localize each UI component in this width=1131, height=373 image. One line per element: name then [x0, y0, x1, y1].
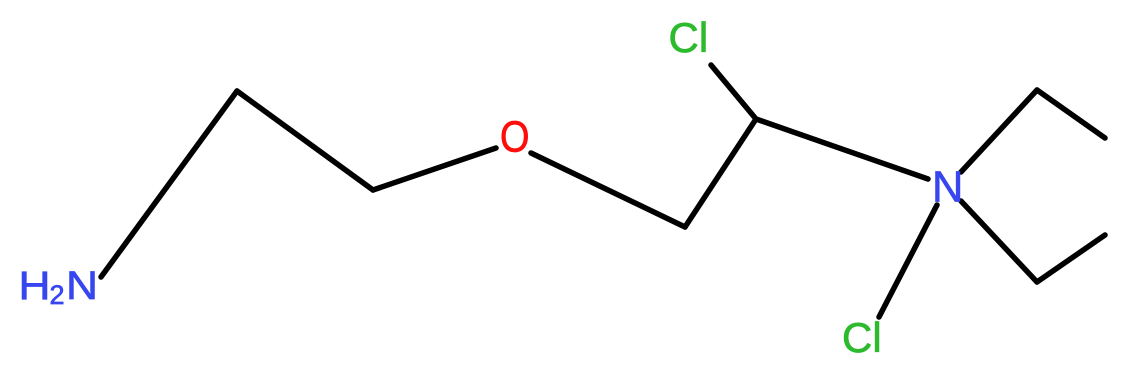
bond N-C1: [101, 91, 237, 277]
svg-text:N: N: [66, 264, 98, 308]
bond O-C3: [531, 153, 685, 227]
svg-text:Cl: Cl: [669, 14, 709, 61]
wire: [101, 65, 1105, 317]
bond C1-C2: [237, 91, 373, 190]
bond Et2a-Et2b: [1037, 235, 1105, 282]
bond C3-C4: [685, 119, 756, 227]
svg-text:O: O: [500, 113, 530, 162]
svg-text:2: 2: [50, 280, 65, 310]
svg-text:H: H: [19, 264, 51, 308]
bond N2-Et2a: [961, 201, 1037, 282]
bond C4-N2: [756, 119, 928, 179]
bond C4-Cl top: [711, 65, 756, 119]
bond C2-O: [373, 148, 496, 190]
svg-text:Cl: Cl: [842, 314, 882, 361]
bond Et1a-Et1b: [1037, 90, 1105, 138]
svg-text:N: N: [932, 164, 963, 212]
bond N2-Et1a: [961, 90, 1037, 172]
bond N2-Cl bottom: [879, 205, 937, 317]
